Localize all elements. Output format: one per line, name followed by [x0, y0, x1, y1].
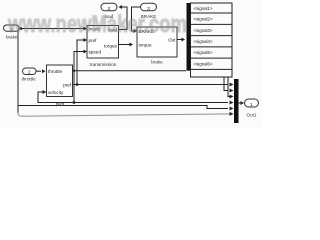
arrow mux p6	[230, 112, 234, 116]
arrow into transmission speed	[84, 50, 88, 54]
svg-text:throttle: throttle	[21, 77, 35, 82]
junction dot pref	[76, 83, 79, 86]
arrow mux p4	[230, 101, 234, 105]
svg-text:pref: pref	[89, 38, 98, 43]
svg-text:<signal6>: <signal6>	[194, 62, 213, 67]
junction dot brake	[20, 27, 23, 30]
wire BRAKE in	[132, 7, 141, 31]
arrow into driver throttle	[42, 69, 46, 73]
svg-text:<signal3>: <signal3>	[194, 28, 213, 33]
arrow into transmission mode	[84, 27, 88, 31]
arrow into brake BRAKE	[134, 29, 138, 33]
wire velocity line p4	[74, 102, 228, 104]
arrow into transmission pref	[84, 38, 88, 42]
arrow mux p1	[230, 83, 234, 87]
wire velocity feedback	[38, 92, 74, 103]
wire brake branch down-left	[17, 29, 19, 114]
mux bar	[234, 79, 239, 123]
wire p3 hook	[228, 77, 230, 97]
arrow into bar1	[182, 38, 186, 42]
arrow into load oval	[119, 5, 123, 9]
wire brake main	[19, 28, 84, 30]
svg-text:www.newMaker.com: www.newMaker.com	[7, 11, 187, 38]
watermark www.newMaker.com	[7, 11, 187, 38]
block transmission	[87, 26, 119, 59]
signal row labels	[194, 6, 213, 67]
wire brakeblock out to bar	[177, 39, 182, 41]
arrow mux p2	[230, 89, 234, 93]
svg-text:<signal5>: <signal5>	[194, 50, 213, 55]
wire pref line p1	[73, 84, 229, 86]
signal rows box	[191, 3, 233, 77]
svg-text:speed: speed	[89, 50, 102, 55]
outport oval 1 Out1	[245, 99, 259, 107]
arrow into driver velocity	[43, 90, 47, 94]
wire bar bottom input	[74, 70, 186, 72]
svg-text:Out1: Out1	[247, 112, 257, 117]
arrow into brake torque	[130, 43, 134, 47]
inport oval 3 BRAKE	[141, 3, 157, 11]
wire speed riser	[74, 52, 84, 103]
wire p5 long	[18, 106, 228, 109]
junction dot bar bottom	[73, 70, 75, 72]
svg-text:velocity: velocity	[48, 90, 64, 95]
outport oval 2 load	[101, 3, 117, 11]
inport oval 2 throttle	[23, 68, 37, 75]
wire pref riser	[77, 40, 84, 85]
wire throttle	[36, 70, 42, 72]
block driver (pilot)	[47, 65, 73, 97]
bus selector bar	[187, 3, 191, 71]
svg-text:<signal1>: <signal1>	[194, 6, 213, 11]
arrow mux p3	[230, 95, 234, 99]
junction dot speed/velocity	[73, 101, 76, 104]
svg-text:transmission: transmission	[90, 62, 117, 68]
wire p2 hook	[224, 77, 228, 91]
svg-text:throttle: throttle	[48, 69, 62, 74]
svg-text:pilot: pilot	[56, 102, 65, 108]
arrow mux p5	[230, 107, 234, 111]
svg-text:Out: Out	[168, 38, 176, 43]
svg-text:torque: torque	[139, 43, 152, 48]
svg-text:<signal2>: <signal2>	[194, 17, 213, 22]
svg-text:<signal4>: <signal4>	[194, 39, 213, 44]
svg-text:torque: torque	[104, 43, 117, 48]
block brake	[137, 27, 177, 57]
svg-text:pref: pref	[63, 83, 72, 88]
arrow into Out1 oval	[241, 101, 245, 105]
wire torque	[119, 44, 130, 46]
inport oval 1 brake	[4, 25, 20, 31]
wire p6 grey long	[18, 113, 233, 117]
wire mux out	[239, 102, 242, 104]
svg-text:brake: brake	[151, 60, 163, 65]
wire load out	[119, 7, 128, 30]
svg-text:1: 1	[250, 102, 253, 108]
